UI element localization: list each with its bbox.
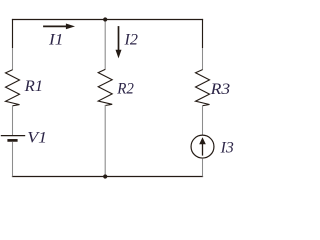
wire lead R3 to I3 (202, 105, 204, 135)
resistor R1 (6, 70, 20, 106)
svg-text:R1: R1 (24, 78, 44, 95)
battery V1 short plate (7, 139, 17, 142)
svg-text:I3: I3 (220, 140, 234, 157)
wire lead I3 to bottom (202, 158, 204, 176)
svg-text:V1: V1 (27, 129, 47, 146)
current arrow I1 (43, 24, 75, 30)
current source I3 circle (191, 135, 214, 158)
resistor R3 (196, 70, 210, 106)
wire right lead into R3 (202, 48, 204, 70)
wire left lead into R1 (12, 48, 14, 70)
battery V1 long plate (1, 135, 25, 137)
wire middle upper lead (104, 22, 106, 70)
wire top from node A left corner to right corner (12, 19, 203, 21)
node B junction dot bottom (103, 174, 107, 178)
wire right upper segment (202, 19, 204, 48)
current source I3 arrow (199, 137, 206, 155)
resistor R2 (98, 69, 112, 105)
node A junction dot top (103, 17, 107, 21)
wire left upper segment (12, 19, 14, 48)
svg-text:R3: R3 (209, 81, 230, 98)
wire bottom (12, 176, 203, 178)
svg-text:I2: I2 (123, 31, 138, 48)
wire middle lower lead (104, 105, 106, 174)
wire lead R1 to V1 (12, 105, 14, 135)
wire lead V1 to bottom (12, 142, 14, 177)
current arrow I2 (116, 26, 122, 58)
svg-text:R2: R2 (116, 80, 134, 97)
svg-text:I1: I1 (48, 31, 64, 48)
